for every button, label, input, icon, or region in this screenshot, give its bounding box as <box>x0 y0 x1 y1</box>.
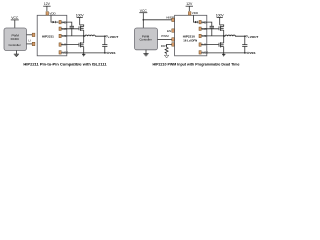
svg-text:HI/EP: HI/EP <box>166 16 174 20</box>
ground (controller) <box>14 51 19 57</box>
capacitor C_out (right) <box>242 37 247 53</box>
diode D1 bootstrap <box>53 21 59 23</box>
node +VOUT terminal (right) <box>246 35 259 39</box>
svg-text:100V: 100V <box>216 14 225 18</box>
svg-text:HIP2210: HIP2210 <box>183 34 195 38</box>
inductor L2 <box>224 35 245 36</box>
svg-text:Controller: Controller <box>9 43 21 47</box>
pin HO <box>59 27 67 31</box>
node SW junction <box>83 35 84 36</box>
capacitor C_boot <box>70 26 74 36</box>
wire VSS <box>61 52 84 54</box>
inductor L1 <box>84 35 105 36</box>
PWM DCDC controller U2 <box>4 28 27 51</box>
node VSS terminal (right) <box>247 51 255 55</box>
pin HB <box>59 20 66 24</box>
wire to VOUT terminal (right) <box>245 35 246 37</box>
node VCC junction <box>143 19 144 20</box>
node VOUT junction <box>104 36 105 37</box>
svg-text:LI: LI <box>28 39 31 43</box>
svg-text:HIP2210 PWM Input with Program: HIP2210 PWM Input with Programmable Dead… <box>152 63 239 67</box>
pin LO <box>59 43 67 47</box>
node VOUT junction (right) <box>244 36 245 37</box>
svg-text:12V: 12V <box>44 2 51 6</box>
resistor R_DT <box>165 47 168 53</box>
wire HS <box>61 35 84 37</box>
supply 12V <box>43 2 50 11</box>
transistor Q2 low-side <box>79 36 84 53</box>
pin RDT <box>161 43 175 48</box>
pin LI <box>28 39 35 46</box>
node VSS terminal <box>107 51 115 55</box>
svg-text:DCDC: DCDC <box>11 37 20 41</box>
wire LI <box>27 43 33 45</box>
op IC U3 HIP2210 <box>175 15 207 56</box>
svg-text:VDD: VDD <box>49 12 56 16</box>
pin HS <box>59 34 66 38</box>
node rail junction <box>104 52 105 53</box>
pin HB (right) <box>199 20 206 24</box>
ground (RDT triangle) <box>164 53 168 58</box>
wire HI <box>27 34 33 36</box>
pin VSS (right) <box>199 51 208 55</box>
wire HO (right) <box>201 28 219 30</box>
wire HS (right) <box>201 35 224 37</box>
supply VCC (controller) <box>139 9 147 28</box>
wire HB to cap (right) <box>201 22 212 26</box>
pin HS (right) <box>199 34 206 38</box>
pin VSS <box>59 51 68 55</box>
svg-text:VDD: VDD <box>192 11 199 15</box>
svg-text:RDT: RDT <box>161 44 167 48</box>
svg-text:VSS: VSS <box>62 51 68 55</box>
svg-text:12V: 12V <box>186 2 193 6</box>
wire bottom rail (right) <box>224 52 248 54</box>
supply VCC (controller) <box>11 16 19 28</box>
wire VCC to EN pin <box>143 19 171 21</box>
capacitor C_out <box>102 37 107 53</box>
svg-text:VSS: VSS <box>249 51 255 55</box>
wire VSS (right) <box>201 52 224 54</box>
svg-text:HIP2211 Pin-to-Pin Compatible: HIP2211 Pin-to-Pin Compatible with ISL21… <box>23 62 107 67</box>
pin HO (right) <box>199 27 207 31</box>
pin VDD (right) <box>188 11 199 15</box>
supply 12V (right) <box>186 2 193 11</box>
ground (right controller) <box>143 50 148 56</box>
svg-text:VSS: VSS <box>109 51 115 55</box>
supply 100V (right) <box>216 14 225 27</box>
svg-text:EN: EN <box>167 29 171 33</box>
svg-text:HIP2211: HIP2211 <box>42 34 54 38</box>
wire bootstrap takeoff (right) <box>193 15 195 22</box>
pin LO (right) <box>199 43 207 47</box>
wire bottom rail <box>84 52 108 54</box>
wire HB to cap <box>61 22 72 26</box>
wire to VOUT terminal <box>105 35 106 37</box>
node SW junction (right) <box>223 35 224 36</box>
transistor Q4 low-side <box>219 36 224 53</box>
wire HO <box>61 28 79 30</box>
svg-text:PWM: PWM <box>161 34 169 38</box>
ground (power stage) <box>82 53 85 56</box>
wire PWM <box>158 38 172 40</box>
wire LO <box>61 44 79 46</box>
pin PWM <box>161 34 174 41</box>
wire bootstrap takeoff <box>51 15 53 22</box>
supply 100V <box>76 14 85 27</box>
transistor Q1 high-side <box>79 26 84 36</box>
svg-text:VSS: VSS <box>202 51 208 55</box>
node rail junction (right) <box>244 52 245 53</box>
op IC U1 HIP2211 <box>37 15 67 56</box>
wire RDT <box>167 44 172 47</box>
pin HI <box>32 33 41 37</box>
svg-text:Controller: Controller <box>140 38 152 42</box>
pin EN <box>167 29 175 33</box>
svg-text:100V: 100V <box>76 14 85 18</box>
svg-text:+VOUT: +VOUT <box>108 35 119 39</box>
svg-text:+VOUT: +VOUT <box>248 35 259 39</box>
svg-text:VCC: VCC <box>11 16 19 20</box>
diode D2 bootstrap <box>195 21 199 23</box>
transistor Q3 high-side <box>219 26 224 36</box>
PWM controller U4 <box>135 28 158 50</box>
capacitor C_boot (right) <box>210 26 214 36</box>
pin HI/EN <box>166 16 174 22</box>
wire LO (right) <box>201 44 219 46</box>
node +VOUT terminal <box>106 35 119 39</box>
pin VDD <box>46 12 57 16</box>
svg-text:VCC: VCC <box>140 9 148 13</box>
ground (right power stage) <box>222 53 225 56</box>
svg-text:16 Ld DFN: 16 Ld DFN <box>183 39 197 43</box>
